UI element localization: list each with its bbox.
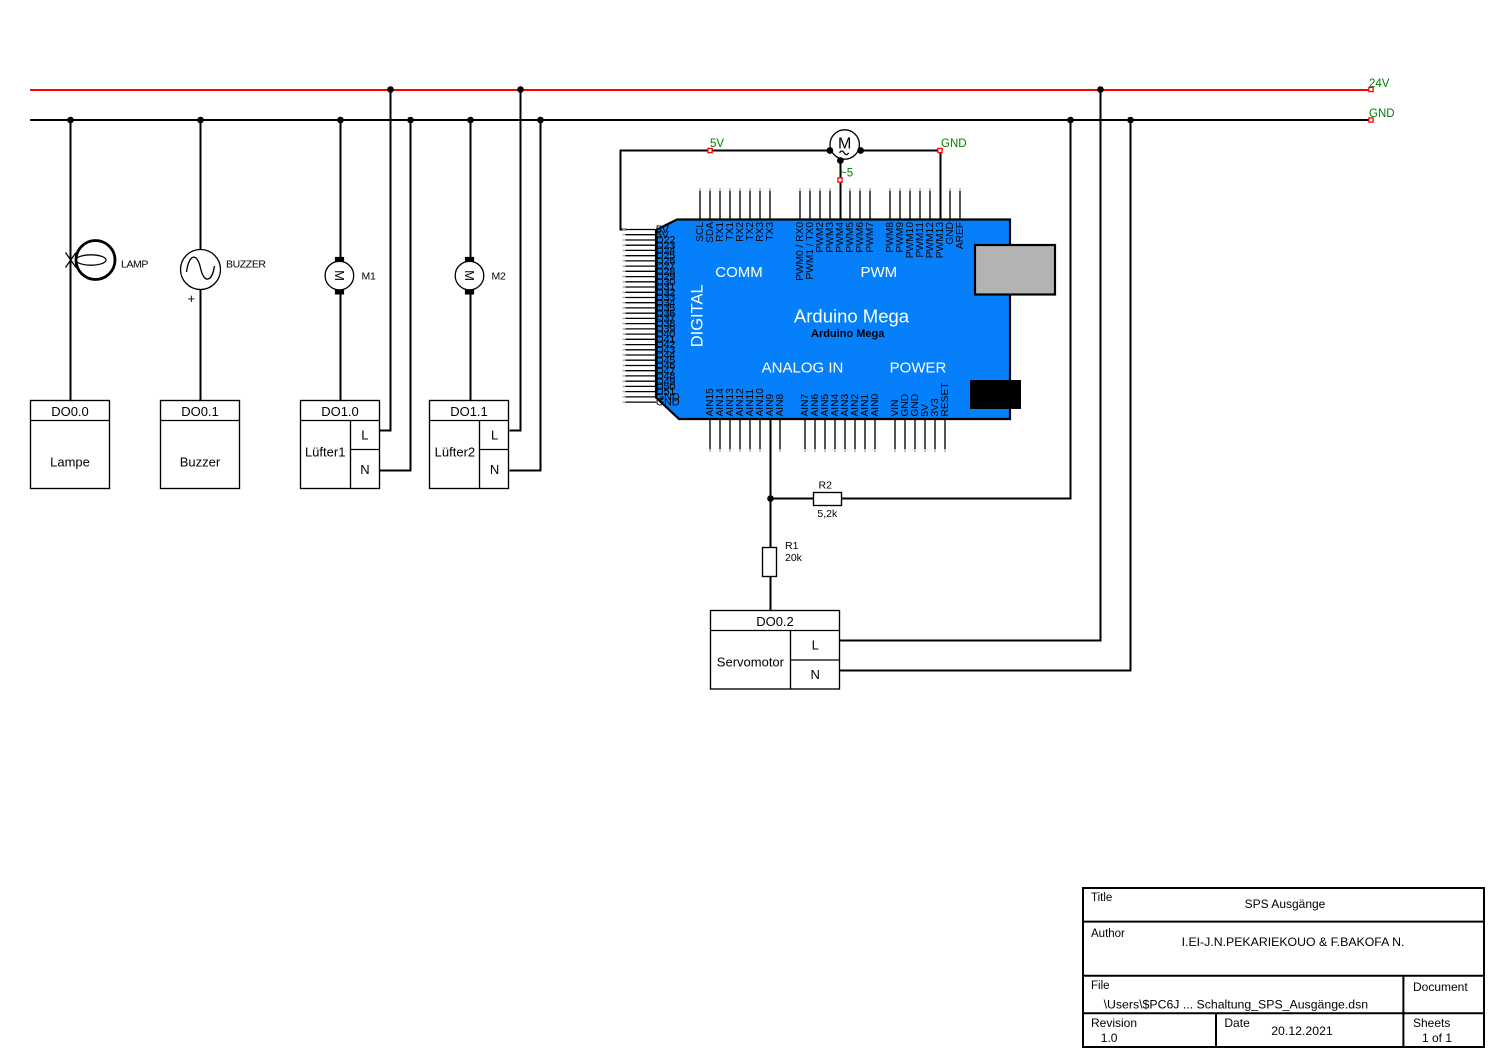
resistor R2 [814,493,842,506]
wire M1 branch [340,120,342,400]
pin AIN15 (bottom) [705,388,716,452]
svg-text:Arduino Mega: Arduino Mega [811,328,885,340]
svg-text:Lüfter1: Lüfter1 [305,445,345,460]
svg-text:COMM: COMM [715,264,763,281]
pin PWM6 (top) [855,188,866,253]
pin D51 (left) [623,386,676,398]
pin TX2 (top) [745,188,756,241]
pin D32 (left) [623,287,676,299]
pin AIN7 (bottom) [800,394,811,452]
pin D26 (left) [623,256,676,268]
pin PWM4 (top) [835,222,846,253]
pin AIN5 (bottom) [820,394,831,452]
wire servo M to PWM pin ~5 [840,161,842,220]
svg-text:M: M [838,136,851,153]
wire 24V to Luefter1 L [380,90,391,431]
pin RESET (bottom) [940,383,951,452]
pin PWM1 / TX0 (top) [805,188,816,280]
terminal dot servo bottom [837,157,844,164]
wire 24V to Luefter2 L [509,90,520,431]
svg-text:M: M [332,270,347,281]
pin PWM13 (top) [935,222,946,259]
svg-text:R2: R2 [819,480,833,492]
pin D50 (left) [623,381,676,393]
svg-text:Revision: Revision [1091,1016,1137,1030]
svg-text:LAMP: LAMP [121,259,148,271]
terminal square GND rail [1369,118,1373,122]
svg-text:20.12.2021: 20.12.2021 [1271,1024,1333,1038]
pin AIN13 (bottom) [725,388,736,452]
svg-text:L: L [812,638,819,653]
pin D42 (left) [623,339,676,351]
pin D35 (left) [623,303,676,315]
pin 5V (left) [623,229,670,241]
junction GND / Buzzer [197,117,204,124]
lamp LAMP symbol [66,241,116,280]
pin PWM3 (top) [825,188,836,253]
title block frame [1083,888,1484,1047]
svg-text:File: File [1091,980,1110,992]
pin RX3 (top) [755,188,766,242]
terminal square ~5 [838,178,842,182]
pin GND (left) [623,397,680,409]
pin PWM9 (top) [895,188,906,253]
svg-text:Buzzer: Buzzer [180,455,221,470]
junction GND / M2 [467,117,474,124]
pin VIN (bottom) [890,400,901,452]
USB connector [975,245,1055,295]
pin GND (left) [623,392,680,404]
pin AIN3 (bottom) [840,394,851,452]
svg-text:N: N [811,667,820,682]
svg-text:M: M [462,270,477,281]
wire 5V to Arduino left pins [621,151,711,230]
motor M1 [325,257,354,295]
pin PWM8 (top) [885,188,896,253]
svg-text:R1: R1 [785,540,799,552]
pin AIN10 (bottom) [755,388,766,452]
motor M servo symbol [830,130,859,159]
svg-text:5,2k: 5,2k [817,508,838,520]
pin 5V (bottom) [920,404,931,452]
pin D24 (left) [623,245,676,257]
pin PWM2 (top) [815,188,826,253]
svg-text:20k: 20k [785,552,803,564]
pin AIN2 (bottom) [850,394,861,452]
block DO0.0 Lampe [31,401,110,489]
block DO0.2 Servomotor [711,611,840,690]
svg-text:+: + [188,291,196,306]
pin D40 (left) [623,329,676,341]
block DO1.1 Luefter2 [430,401,509,489]
pin PWM11 (top) [915,188,926,257]
pin 3V3 (bottom) [930,398,941,452]
pin AIN14 (bottom) [715,388,726,452]
pin PWM0 / RX0 (top) [795,188,806,281]
pin D33 (left) [623,292,676,304]
pin D46 (left) [623,360,676,372]
pin PWM7 (top) [865,188,876,253]
pin D28 (left) [623,266,676,278]
wire Lampe branch [70,120,72,400]
pin AIN1 (bottom) [860,394,871,452]
svg-text:RESET: RESET [940,383,951,417]
svg-text:Lampe: Lampe [50,455,90,470]
svg-text:Servomotor: Servomotor [717,655,785,670]
wire AIN pin to R1/R2 node [770,419,772,548]
wire node to R2 left [771,498,814,500]
svg-text:PWM7: PWM7 [865,222,876,253]
wire M2 branch [470,120,472,400]
svg-text:M2: M2 [492,271,506,283]
svg-text:AIN8: AIN8 [775,394,786,417]
svg-text:DIGITAL: DIGITAL [689,284,707,347]
pin D29 (left) [623,271,676,283]
pin D38 (left) [623,318,676,330]
wire GND to R2 [841,120,1070,499]
svg-text:Date: Date [1224,1016,1250,1030]
junction GND / R2 [1067,117,1074,124]
wire R1 to DO0.2 [770,577,772,611]
svg-text:Document: Document [1413,980,1468,994]
pin SCL (top) [695,188,706,242]
pin RX1 (top) [715,188,726,242]
svg-text:PWM: PWM [860,264,897,281]
pin D31 (left) [623,282,676,294]
svg-text:TX3: TX3 [765,222,776,241]
svg-text:DO1.0: DO1.0 [321,404,359,419]
pin D45 (left) [623,355,676,367]
pin PWM12 (top) [925,188,936,258]
svg-text:Author: Author [1091,928,1125,940]
svg-text:GND: GND [941,138,967,150]
svg-text:I.EI-J.N.PEKARIEKOUO & F.BAKOF: I.EI-J.N.PEKARIEKOUO & F.BAKOFA N. [1182,935,1405,949]
pin D23 (left) [623,240,676,252]
pin D25 (left) [623,250,676,262]
wire servo M right terminal to GND pin [861,151,941,220]
pin AIN11 (bottom) [745,389,756,452]
terminal square 5V [708,148,712,152]
svg-text:\Users\$PC6J ... Schaltung_SPS: \Users\$PC6J ... Schaltung_SPS_Ausgänge.… [1104,998,1369,1012]
svg-text:AREF: AREF [955,222,966,249]
svg-text:DO0.0: DO0.0 [51,404,89,419]
junction 24V / Luefter1 L [387,86,394,93]
pin D22 (left) [623,235,676,247]
svg-text:1 of 1: 1 of 1 [1422,1031,1452,1045]
junction GND / Lampe [67,117,74,124]
svg-text:AIN0: AIN0 [870,394,881,417]
op-amp U1 Arduino Mega board body [656,220,1010,420]
pin D49 (left) [623,376,676,388]
pin D39 (left) [623,324,676,336]
wire GND to Luefter2 N [509,120,540,471]
pin RX2 (top) [735,188,746,242]
pin 5V (left) [623,224,670,236]
pin D34 (left) [623,297,676,309]
pin D27 (left) [623,261,676,273]
pin GND (top) [945,188,956,245]
motor M2 [455,257,484,295]
svg-text:Arduino Mega: Arduino Mega [794,306,910,327]
svg-text:BUZZER: BUZZER [226,259,266,271]
pin AIN9 (bottom) [765,394,776,417]
terminal square 24V rail [1369,87,1373,91]
pin TX3 (top) [765,188,776,241]
pin PWM10 (top) [905,188,916,258]
junction GND / Luefter1 N [407,117,414,124]
pin AIN12 (bottom) [735,388,746,452]
svg-text:POWER: POWER [890,359,947,376]
junction 24V / Servomotor L [1097,86,1104,93]
svg-text:L: L [491,428,498,443]
pin TX1 (top) [725,188,736,241]
wire GND rail [30,119,1371,121]
svg-text:N: N [360,462,369,477]
wire 24V to Servomotor L [840,90,1101,641]
pin AIN8 (bottom) [775,394,786,452]
pin D48 (left) [623,371,676,383]
wire GND to Luefter1 N [380,120,411,471]
power jack connector [970,380,1021,409]
svg-text:Sheets: Sheets [1413,1016,1450,1030]
svg-text:L: L [361,428,368,443]
pin SDA (top) [705,188,716,243]
pin AREF (top) [955,188,966,249]
pin AIN4 (bottom) [830,394,841,452]
svg-text:SPS Ausgänge: SPS Ausgänge [1245,897,1326,911]
terminal square GND servo [938,148,942,152]
terminal dot servo left [827,147,834,154]
terminal dot servo right [857,147,864,154]
svg-text:DO0.1: DO0.1 [181,404,219,419]
block DO0.1 Buzzer [161,401,240,489]
wire 24V power rail [30,89,1371,91]
junction GND / Luefter2 N [537,117,544,124]
junction GND / M1 [337,117,344,124]
wire GND to Servomotor N [840,120,1131,671]
wire Buzzer branch [200,120,202,400]
buzzer BUZZER symbol [181,250,221,290]
svg-text:DO0.2: DO0.2 [756,614,794,629]
svg-text:1.0: 1.0 [1101,1031,1118,1045]
svg-text:GND: GND [656,397,680,409]
svg-text:DO1.1: DO1.1 [450,404,488,419]
junction R1/R2 node [767,495,774,502]
pin D43 (left) [623,344,676,356]
pin D36 (left) [623,308,676,320]
wire 5V to servo M left terminal [710,150,830,152]
pin D44 (left) [623,350,676,362]
svg-text:ANALOG IN: ANALOG IN [762,359,844,376]
block DO1.0 Luefter1 [301,401,380,489]
pin D30 (left) [623,276,676,288]
pin D47 (left) [623,365,676,377]
junction GND / Servomotor N [1127,117,1134,124]
pin AIN0 (bottom) [870,394,881,452]
svg-text:Lüfter2: Lüfter2 [435,445,475,460]
resistor R1 [763,548,777,577]
pin D37 (left) [623,313,676,325]
svg-text:M1: M1 [362,271,376,283]
pin GND (bottom) [910,394,921,452]
pin D41 (left) [623,334,676,346]
pin GND (bottom) [900,394,911,452]
pin AIN6 (bottom) [810,394,821,452]
junction 24V / Luefter2 L [517,86,524,93]
svg-text:Title: Title [1091,892,1112,904]
svg-text:N: N [490,462,499,477]
pin PWM5 (top) [845,188,856,253]
